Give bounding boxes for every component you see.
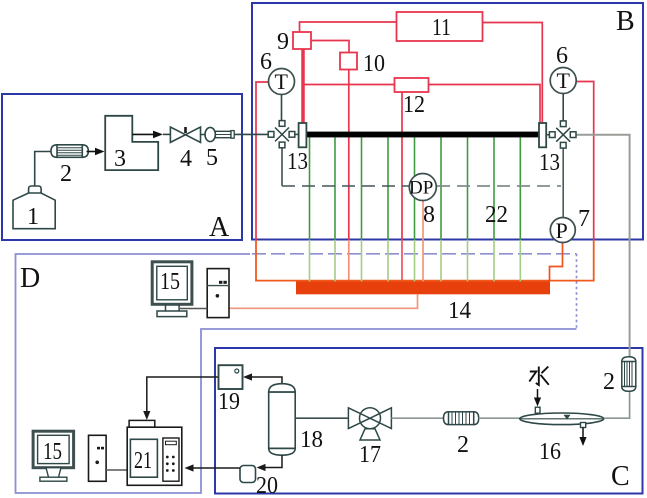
controller box 11 (397, 12, 483, 41)
wire gray retentate from right cross valve (576, 135, 629, 357)
svg-text:20: 20 (256, 473, 278, 498)
svg-text:T: T (557, 68, 571, 93)
svg-text:12: 12 (403, 92, 425, 118)
svg-text:13: 13 (539, 150, 560, 176)
svg-text:7: 7 (578, 206, 590, 232)
water label and arrow (529, 367, 549, 407)
valve 17 (348, 408, 391, 468)
filter 2 in box C (444, 412, 479, 458)
signal line dotted blue vertical (576, 254, 578, 329)
svg-text:2: 2 (457, 432, 469, 458)
DP gauge 8 (409, 174, 436, 229)
signal line dashed blue horizontal (252, 253, 577, 255)
svg-text:15: 15 (160, 269, 180, 295)
collector bar 14 (296, 282, 550, 295)
module right end fitting (539, 123, 546, 147)
pipe from column 18 to valve 17 (295, 417, 348, 419)
box 19 (218, 365, 243, 415)
tube green 9 (519, 138, 521, 282)
svg-text:C: C (611, 461, 630, 492)
wire red from box 12 down through module (401, 92, 403, 240)
box A frame (2, 94, 242, 240)
dashed impulse line to DP (282, 185, 410, 187)
box C frame (215, 348, 643, 494)
svg-text:A: A (209, 212, 230, 243)
monitor 15 bottom (33, 431, 74, 481)
svg-text:19: 19 (218, 389, 240, 415)
left T gauge stem (281, 95, 283, 121)
wire tower to GC (106, 469, 127, 471)
computer tower top (207, 269, 229, 318)
svg-text:P: P (556, 218, 568, 243)
svg-text:15: 15 (43, 439, 62, 465)
cross valve 13 right (539, 121, 576, 176)
fitting 5 (201, 127, 235, 171)
wire light red continuation of 12 line to bar (401, 240, 403, 282)
wire salmon from DP gauge down to bar (422, 201, 424, 282)
column 18 (269, 384, 323, 456)
svg-text:4: 4 (180, 146, 192, 172)
wire salmon continuation of 10 line to bar (348, 240, 350, 282)
wire red from box 9 right to box 10 top (311, 41, 349, 53)
pump 3 (105, 116, 158, 172)
monitor 15 top (152, 262, 192, 317)
arrow from pump 3 to valve 4 (132, 131, 170, 139)
wire red thick from box 9 down to left fitting (301, 49, 305, 123)
tube green 4 (387, 138, 389, 282)
wire red from box 11 right down to right fitting (483, 23, 542, 124)
box D frame (open polyline) (16, 254, 577, 493)
svg-text:1: 1 (27, 204, 39, 230)
controller box 12 (395, 78, 429, 118)
wire orange heater loop left drop (256, 240, 594, 281)
tube green 3 (361, 138, 363, 282)
svg-text:T: T (275, 69, 289, 94)
filter 2 in box A (51, 145, 88, 187)
svg-text:2: 2 (60, 161, 72, 187)
tube green 2 (334, 138, 336, 282)
wire from right cross valve down to P gauge (562, 148, 564, 218)
pipe from filter 2 to humidifier 16 (479, 417, 521, 419)
svg-text:21: 21 (134, 448, 152, 474)
controller box 10 (340, 51, 385, 77)
wire red from box 10 down through module (348, 70, 350, 241)
box B frame (252, 3, 643, 240)
valve 4 (170, 127, 200, 172)
tube green 5 (414, 138, 416, 282)
svg-text:6: 6 (260, 49, 272, 75)
wire red horizontal through box 12 (303, 85, 540, 124)
svg-text:DP: DP (409, 178, 433, 199)
svg-text:B: B (616, 6, 635, 37)
svg-text:3: 3 (114, 146, 126, 172)
pipe from valve 17 to filter 2 (391, 417, 443, 419)
svg-text:8: 8 (423, 202, 435, 228)
svg-text:18: 18 (300, 427, 323, 453)
left T gauge 6 (260, 49, 295, 95)
wire red from box 9 top to box 11 (300, 22, 397, 32)
tube green 7 (467, 138, 469, 282)
gas chromatograph 21 (127, 420, 182, 485)
cross valve 13 left (268, 121, 308, 175)
box 20 (240, 466, 278, 498)
humidifier dish 16 (520, 407, 604, 465)
arrow from filter 2 to pump 3 (87, 148, 105, 155)
wire orange from P gauge to bar (550, 242, 563, 282)
svg-text:11: 11 (432, 15, 451, 41)
computer tower bottom (89, 435, 107, 481)
svg-text:16: 16 (539, 439, 561, 465)
svg-text:10: 10 (363, 51, 385, 77)
wire red left T gauge stub and drop (256, 82, 269, 240)
svg-text:13: 13 (287, 149, 308, 175)
tube green 6 (440, 138, 442, 282)
wire red right T gauge stub and drop (576, 82, 594, 241)
svg-text:14: 14 (448, 298, 471, 324)
wire from left cross valve down (pressure tap) (281, 148, 283, 186)
svg-text:22: 22 (485, 202, 508, 228)
svg-text:17: 17 (359, 442, 381, 468)
svg-text:D: D (20, 263, 40, 294)
wire salmon from computer tower to bar 14 (229, 295, 418, 309)
arrow from box 20 to GC 21 (185, 464, 241, 471)
pipe from dish 16 to vertical filter 2 (604, 392, 630, 419)
P gauge 7 (550, 206, 590, 243)
right T gauge stem (562, 94, 564, 122)
wire feed line into left cross valve (234, 133, 268, 135)
svg-text:2: 2 (603, 369, 615, 395)
vertical filter 2 in box C (603, 357, 636, 395)
svg-text:9: 9 (277, 29, 289, 55)
tube green 1 (309, 138, 311, 282)
bottle 1 (13, 152, 55, 231)
membrane module black bar (306, 132, 539, 138)
tube green 8 (493, 138, 495, 282)
arrow from column 18 bottom to box 20 (257, 455, 283, 471)
svg-text:6: 6 (556, 43, 568, 69)
module left end fitting (299, 123, 307, 147)
wire monitor to tower (180, 308, 207, 310)
svg-text:5: 5 (206, 145, 218, 171)
wire from box 19 to GC top with arrow (143, 377, 218, 420)
arrow from column 18 to box 19 (243, 373, 282, 384)
right T gauge 6 (550, 43, 576, 94)
controller box 9 (277, 29, 311, 55)
drain square and arrow on dish 16 (579, 423, 586, 447)
